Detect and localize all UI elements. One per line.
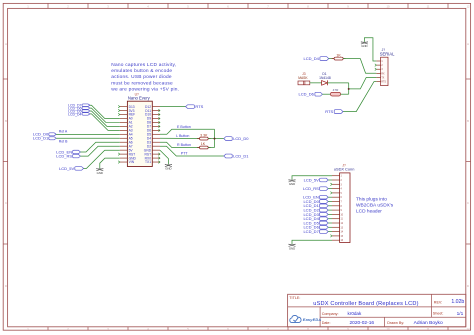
- junction dot (diode node): [348, 88, 350, 90]
- svg-text:R Button: R Button: [177, 143, 191, 147]
- svg-text:L Button: L Button: [176, 134, 189, 138]
- svg-text:MASK: MASK: [298, 76, 308, 80]
- IC U? left pins: [120, 105, 137, 164]
- wire L Button: [160, 134, 200, 139]
- resistor R? 1K: [197, 142, 210, 149]
- annotation note: Nano captures LCD activity: [111, 62, 179, 93]
- svg-text:Company:: Company:: [322, 312, 339, 316]
- wire: [90, 108, 120, 122]
- svg-text:Drawn By:: Drawn By:: [387, 321, 404, 325]
- svg-text:12: 12: [467, 327, 470, 331]
- svg-text:GND: GND: [361, 44, 367, 48]
- svg-text:RTS: RTS: [325, 109, 333, 114]
- svg-text:LCD_D4: LCD_D4: [68, 112, 81, 116]
- wire: [328, 179, 332, 181]
- net flag LCD_D5 (to pin A2): [68, 109, 90, 113]
- wire: [328, 196, 332, 198]
- svg-text:11: 11: [427, 327, 430, 331]
- svg-text:PTT: PTT: [181, 151, 189, 155]
- svg-text:REV:: REV:: [434, 300, 442, 304]
- resistor R? 3.3K: [197, 133, 210, 140]
- connector J? SERIAL pins: [376, 61, 386, 84]
- svg-text:LCD_D6: LCD_D6: [299, 92, 315, 97]
- svg-text:must be removed because: must be removed because: [111, 80, 173, 86]
- svg-text:SERIAL: SERIAL: [380, 52, 395, 57]
- svg-text:we are powering via +5V pin.: we are powering via +5V pin.: [111, 87, 179, 93]
- svg-text:TX1: TX1: [145, 160, 151, 164]
- svg-text:GND: GND: [97, 171, 103, 175]
- svg-text:D: D: [467, 284, 469, 288]
- net flag LCD_RS (uSDX pin 4): [303, 186, 328, 191]
- svg-text:TX: TX: [381, 77, 384, 79]
- svg-text:A: A: [467, 42, 469, 46]
- net flag LCD_D0 (uSDX pin 7): [303, 199, 328, 204]
- svg-text:LCD_RS: LCD_RS: [303, 186, 319, 191]
- jumper J3 MASK: [298, 72, 310, 85]
- net flag LCD_D1 (Rot B): [33, 136, 56, 141]
- svg-text:RTS: RTS: [195, 104, 203, 109]
- svg-text:47R: 47R: [333, 88, 339, 92]
- wire LCD_RS to A7: [80, 146, 119, 156]
- net flag LCD_D4: [304, 56, 329, 61]
- junction dot (button node): [214, 138, 216, 140]
- wire right GND pin to ground: [160, 150, 168, 164]
- wire PTT: [160, 146, 224, 156]
- svg-text:GND: GND: [289, 247, 295, 251]
- svg-text:LCD_5V: LCD_5V: [304, 177, 319, 182]
- ground (left of IC): [96, 168, 103, 174]
- net flag LCD_D0 (Rot A): [33, 132, 56, 137]
- wire: [328, 218, 332, 220]
- wire: [90, 111, 120, 126]
- svg-text:3.3K: 3.3K: [200, 133, 208, 137]
- svg-text:Date:: Date:: [322, 321, 331, 325]
- wire: [90, 114, 120, 130]
- wire ground to serial pin 1: [364, 38, 376, 61]
- svg-text:1/1: 1/1: [457, 311, 464, 317]
- net flag LCD_D4 (to pin A3): [68, 112, 90, 116]
- net flag LCD_D6 (to pin A1): [68, 106, 90, 110]
- svg-text:WB2CBA uSDX's: WB2CBA uSDX's: [356, 202, 394, 208]
- wire: [90, 105, 120, 118]
- svg-text:Rot B: Rot B: [59, 140, 68, 144]
- net flag LCD_D6 (uSDX pin 13): [303, 225, 328, 230]
- net flag LCD_D7 (uSDX pin 14): [303, 229, 328, 234]
- IC U? Nano Every body: [127, 92, 152, 166]
- svg-text:LCD_D7: LCD_D7: [303, 229, 319, 234]
- net flag LCD_D7 (to pin A0): [68, 104, 90, 108]
- svg-text:1N4148: 1N4148: [319, 76, 331, 80]
- connector J? uSDX pins: [332, 176, 344, 243]
- svg-text:Rot A: Rot A: [59, 129, 68, 133]
- connector J? uSDX Conn body: [334, 163, 355, 242]
- svg-text:1K: 1K: [336, 53, 341, 57]
- svg-text:Sheet:: Sheet:: [433, 312, 444, 316]
- wire LCD_EN to A6: [80, 142, 119, 152]
- net flag LCD_5V: [59, 166, 84, 171]
- uSDX unconnected pin arrows: [330, 183, 332, 237]
- svg-text:LCD_D1: LCD_D1: [233, 153, 249, 158]
- svg-text:B: B: [5, 119, 7, 123]
- wire: [328, 188, 332, 190]
- wire Rot A: [56, 129, 120, 134]
- wire LCD_5V to 5V pin: [84, 150, 120, 168]
- wire: [328, 201, 332, 203]
- wire uSDX pin1 to ground: [292, 176, 332, 180]
- svg-text:1K: 1K: [201, 142, 206, 146]
- net flag LCD_D5 (uSDX pin 12): [303, 220, 328, 225]
- svg-text:Nano captures LCD activity,: Nano captures LCD activity,: [111, 62, 176, 68]
- IC unconnected pin arrows: [118, 105, 160, 163]
- svg-text:kr0dak: kr0dak: [348, 311, 362, 316]
- resistor R? 47R: [331, 88, 341, 96]
- svg-text:EasyEDA: EasyEDA: [303, 317, 322, 322]
- wire: [328, 231, 332, 233]
- svg-text:LCD_D4: LCD_D4: [304, 56, 320, 61]
- svg-text:actions. USB power diode: actions. USB power diode: [111, 74, 172, 80]
- svg-text:LCD_D1: LCD_D1: [33, 136, 49, 141]
- wire: [328, 209, 332, 211]
- ground (uSDX top): [289, 180, 296, 186]
- svg-text:uSDX Conn: uSDX Conn: [334, 167, 355, 172]
- svg-text:VIN: VIN: [129, 160, 135, 164]
- svg-text:Adrian Boyko: Adrian Boyko: [414, 320, 443, 326]
- annotation note: This plugs into: [356, 196, 394, 214]
- wire RTS pin to RTS flag: [343, 82, 376, 112]
- diode D1 1N4148: [319, 72, 331, 85]
- wire uSDX pin16 to ground: [292, 240, 332, 244]
- wire TX to diode node: [349, 77, 377, 88]
- wire E Button: [160, 125, 215, 134]
- net flag LCD_EN (uSDX pin 6): [303, 195, 328, 200]
- net flag LCD_D1 (PTT): [224, 153, 250, 158]
- wire LCD_D6 to resistor: [322, 93, 330, 95]
- svg-text:LCD_RS: LCD_RS: [56, 153, 72, 158]
- svg-text:This plugs into: This plugs into: [356, 196, 387, 202]
- wire GND pin to ground: [100, 158, 120, 168]
- wire to RX pin: [343, 59, 376, 74]
- svg-text:10: 10: [387, 5, 390, 9]
- svg-text:C: C: [5, 201, 7, 205]
- svg-text:12: 12: [467, 5, 470, 9]
- svg-text:C: C: [467, 201, 469, 205]
- svg-text:LCD_D0: LCD_D0: [233, 136, 249, 141]
- net flag LCD_EN: [56, 149, 80, 154]
- svg-text:Nano Every: Nano Every: [128, 96, 151, 101]
- ground (serial): [361, 42, 368, 48]
- wire D1 cathode to node: [327, 83, 349, 94]
- svg-text:LCD header: LCD header: [356, 209, 382, 215]
- resistor R? 1K (serial RX): [332, 53, 346, 60]
- wire LCD_D4 to resistor: [329, 58, 334, 60]
- wire: [328, 205, 332, 207]
- wire R Button: [160, 142, 200, 147]
- ground (right of IC): [165, 164, 172, 170]
- net flag RTS (serial): [325, 109, 343, 114]
- wire J3 to D1: [310, 82, 322, 84]
- wire D12 to RTS: [160, 106, 186, 108]
- svg-text:2020-02-16: 2020-02-16: [350, 320, 375, 326]
- connector J? SERIAL body: [380, 48, 395, 85]
- EasyEDA logo: [290, 315, 322, 322]
- svg-text:11: 11: [427, 5, 430, 9]
- wire Rot B: [56, 138, 120, 143]
- svg-text:B: B: [467, 119, 469, 123]
- IC U? right pins: [144, 105, 160, 164]
- net flag LCD_5V (uSDX pin 2): [304, 177, 329, 182]
- svg-text:RX: RX: [381, 73, 385, 75]
- svg-text:GND: GND: [165, 167, 171, 171]
- svg-text:RTS: RTS: [381, 82, 386, 84]
- net flag LCD_D3 (uSDX pin 10): [303, 212, 328, 217]
- svg-text:D: D: [5, 284, 7, 288]
- net flag LCD_RS: [56, 153, 80, 158]
- svg-text:1.02b: 1.02b: [451, 299, 464, 305]
- wire: [328, 222, 332, 224]
- svg-text:E Button: E Button: [177, 125, 191, 129]
- net flag LCD_D6: [299, 92, 323, 97]
- net flag LCD_D0 (buttons): [224, 136, 250, 141]
- title block texts: [289, 296, 464, 326]
- svg-text:emulates button & encode: emulates button & encode: [111, 68, 172, 74]
- svg-text:GND: GND: [289, 182, 295, 186]
- svg-text:LCD_5V: LCD_5V: [59, 166, 74, 171]
- net flag LCD_D4 (uSDX pin 11): [303, 216, 328, 221]
- wire button node: [208, 129, 224, 147]
- svg-text:A: A: [5, 42, 7, 46]
- net flag LCD_D1 (uSDX pin 8): [303, 203, 328, 208]
- serial unconnected pin arrows: [375, 64, 377, 71]
- svg-text:uSDX Controller Board (Replace: uSDX Controller Board (Replaces LCD): [313, 301, 418, 307]
- svg-text:10: 10: [387, 327, 390, 331]
- svg-text:TITLE:: TITLE:: [289, 296, 300, 300]
- net flag RTS (at D12): [186, 104, 204, 109]
- wire: [328, 213, 332, 215]
- wire 47R to node: [341, 93, 349, 95]
- net flag LCD_D2 (uSDX pin 9): [303, 207, 328, 212]
- title block: [288, 294, 466, 327]
- ground (uSDX bottom): [289, 244, 296, 250]
- wire: [328, 226, 332, 228]
